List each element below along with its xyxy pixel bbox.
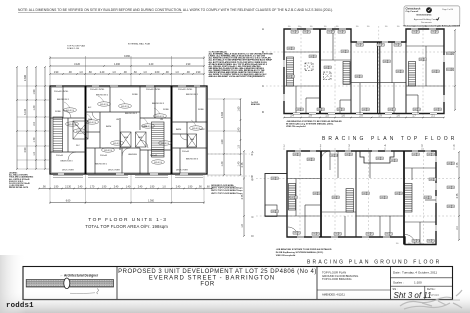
svg-text:1.0: 1.0 [310, 26, 313, 28]
svg-text:GS1: GS1 [287, 76, 291, 78]
svg-text:1.0: 1.0 [437, 26, 440, 28]
callout bubbles [64, 102, 203, 164]
svg-text:2.40: 2.40 [114, 186, 119, 188]
svg-text:GS1: GS1 [383, 61, 387, 63]
svg-text:GS1: GS1 [307, 159, 311, 161]
svg-text:2.40: 2.40 [78, 186, 83, 188]
shower xbox unit1 [73, 121, 88, 139]
svg-text:BRACING: BRACING [251, 103, 260, 106]
svg-text:GS1: GS1 [291, 32, 295, 34]
svg-text:GS1: GS1 [419, 59, 423, 61]
micro labels above top wall [288, 26, 440, 28]
svg-text:GS1: GS1 [376, 158, 380, 160]
svg-text:1.90: 1.90 [54, 72, 59, 74]
svg-text:SHR: SHR [138, 137, 143, 139]
svg-text:2.40: 2.40 [176, 186, 181, 188]
room labels [54, 89, 205, 172]
svg-text:2.75: 2.75 [241, 162, 244, 167]
extra partitions ground plan [305, 151, 436, 237]
svg-text:A: A [262, 27, 264, 31]
legend notes block [209, 51, 274, 79]
svg-text:TOP FLOOR BRACING: TOP FLOOR BRACING [322, 277, 352, 281]
svg-text:Ref No :: Ref No : [427, 288, 436, 291]
window breaks top plan walls [291, 29, 437, 114]
svg-text:BRACING PLAN GROUND FLOOR: BRACING PLAN GROUND FLOOR [307, 259, 441, 265]
svg-text:2.60: 2.60 [155, 72, 160, 74]
logo: architectural designer [26, 273, 113, 294]
window breaks ground plan walls [295, 151, 436, 237]
svg-text:← Architectural Designer: ← Architectural Designer [60, 273, 99, 277]
svg-text:BATH: BATH [106, 125, 112, 128]
gray watermark squiggle [400, 290, 462, 309]
left extension lines [17, 86, 241, 175]
svg-text:1.90: 1.90 [54, 186, 59, 188]
svg-text:2.130: 2.130 [65, 186, 72, 188]
svg-text:VISE ON easybuild: VISE ON easybuild [286, 126, 306, 128]
svg-text:Scales :: Scales : [393, 280, 404, 284]
svg-text:2.40: 2.40 [149, 64, 154, 66]
svg-text:ROBE: ROBE [163, 109, 169, 111]
svg-text:1.70: 1.70 [90, 186, 95, 188]
svg-text:D: D [252, 234, 254, 238]
svg-text:GS1: GS1 [271, 211, 275, 213]
svg-text:IN GIB EzyBracing SYSTEMS MANU: IN GIB EzyBracing SYSTEMS MANUAL (2011). [276, 251, 324, 254]
dim ticks row below top plan [283, 115, 445, 118]
svg-text:GS1: GS1 [394, 45, 398, 47]
svg-text:GS1: GS1 [293, 154, 297, 156]
bracing top: dashed grid [266, 51, 455, 53]
svg-text:GS1-N 2.4: GS1-N 2.4 [192, 128, 200, 130]
svg-text:GS1: GS1 [330, 155, 334, 157]
svg-text:GS1: GS1 [447, 163, 451, 165]
svg-text:1.90: 1.90 [102, 186, 107, 188]
svg-text:GS1-N 2.4: GS1-N 2.4 [68, 124, 76, 126]
svg-text:1.0: 1.0 [397, 26, 400, 28]
svg-text:1.0: 1.0 [408, 243, 411, 245]
svg-text:BEDROOM 3: BEDROOM 3 [61, 161, 74, 163]
svg-text:6.60: 6.60 [66, 200, 71, 202]
svg-text:City Council: City Council [406, 10, 419, 13]
svg-text:GS1: GS1 [337, 109, 341, 111]
internal partitions top plan [284, 29, 444, 114]
svg-text:FOR: FOR [200, 282, 215, 288]
svg-text:DECK OVER: DECK OVER [108, 170, 120, 172]
title block frame [23, 267, 453, 300]
svg-text:GS1: GS1 [434, 109, 438, 111]
svg-text:GS1-N 2.4: GS1-N 2.4 [144, 126, 152, 128]
door arcs [288, 227, 298, 237]
svg-text:1.60: 1.60 [221, 139, 224, 144]
svg-text:1.0: 1.0 [413, 26, 416, 28]
svg-text:2.75: 2.75 [456, 162, 459, 167]
svg-text:C: C [252, 215, 254, 219]
svg-text:SHR: SHR [190, 139, 195, 141]
svg-text:TOP FLOOR UNITS 1-3: TOP FLOOR UNITS 1-3 [88, 217, 167, 223]
shower xbox unit3 [188, 134, 197, 147]
svg-text:1.90: 1.90 [33, 89, 36, 94]
svg-text:GS1: GS1 [447, 69, 451, 71]
svg-text:BEDROOM 2: BEDROOM 2 [96, 95, 109, 97]
side wall breaks top plan [284, 55, 444, 102]
svg-text:BEDROOM 3: BEDROOM 3 [186, 159, 199, 161]
svg-text:D: D [262, 110, 264, 114]
party walls top plan [319, 29, 321, 114]
svg-text:GS1: GS1 [412, 32, 416, 34]
svg-text:1.90: 1.90 [150, 186, 155, 188]
svg-text:GS1-N 2.4: GS1-N 2.4 [88, 122, 96, 124]
svg-text:GS1: GS1 [447, 53, 451, 55]
svg-text:2.40: 2.40 [100, 72, 105, 74]
svg-text:VISE ON easybuild: VISE ON easybuild [276, 255, 296, 257]
extension lines [50, 56, 204, 86]
svg-text:GS1-N 2.4: GS1-N 2.4 [100, 104, 108, 106]
svg-text:This document is issued under: This document is issued under section 51… [403, 25, 461, 28]
party walls ground [320, 151, 322, 237]
svg-text:Approved Building Consent: Approved Building Consent [414, 18, 440, 21]
svg-text:1.40: 1.40 [221, 161, 224, 166]
svg-text:B: B [252, 178, 254, 182]
svg-text:A: A [252, 150, 254, 154]
right dimension columns [221, 98, 225, 176]
svg-text:GS1: GS1 [447, 187, 451, 189]
dashed xboxes [305, 63, 331, 80]
svg-text:Sht 3 of 11: Sht 3 of 11 [394, 291, 432, 300]
page bottom edge [23, 299, 460, 301]
svg-text:GS1: GS1 [432, 71, 436, 73]
dashed grid ground [256, 178, 455, 180]
svg-text:2/90x45 LINTEL: 2/90x45 LINTEL [90, 89, 105, 91]
svg-text:1.360: 1.360 [148, 200, 155, 202]
svg-text:GS1-N 2.4: GS1-N 2.4 [104, 150, 112, 152]
svg-text:PROPOSED 3 UNIT DEVELOPMENT AT: PROPOSED 3 UNIT DEVELOPMENT AT LOT 25 DP… [118, 269, 317, 275]
svg-text:IN GIB EzyBracing SYSTEMS MANU: IN GIB EzyBracing SYSTEMS MANUAL (2011). [286, 123, 334, 126]
bracing labels ground plan [293, 153, 300, 156]
stairs top plan [287, 57, 294, 86]
svg-text:BATH: BATH [176, 128, 182, 131]
svg-text:3.120: 3.120 [74, 64, 81, 66]
svg-text:2/90x45 LINTEL: 2/90x45 LINTEL [54, 91, 69, 93]
svg-text:GS1: GS1 [356, 45, 360, 47]
svg-text:1.90: 1.90 [188, 186, 193, 188]
svg-text:GS1-N 2.4: GS1-N 2.4 [66, 110, 74, 112]
svg-text:BRACING PLAN TOP FLOOR: BRACING PLAN TOP FLOOR [322, 136, 457, 142]
svg-text:UNIT 3 TOP FLOOR AREA 72sqm: UNIT 3 TOP FLOOR AREA 72sqm [211, 192, 243, 195]
svg-text:BEDROOM 2: BEDROOM 2 [125, 113, 138, 115]
svg-text:-GIB BRACING SYSTEMS TO BE FIX: -GIB BRACING SYSTEMS TO BE FIXED AS DETA… [276, 248, 332, 251]
svg-text:GS1: GS1 [431, 32, 435, 34]
svg-text:2.40: 2.40 [138, 186, 143, 188]
svg-text:GS1: GS1 [271, 178, 275, 180]
internal partitions ground [287, 151, 436, 245]
svg-text:1.0: 1.0 [385, 26, 388, 28]
svg-text:GS1: GS1 [429, 179, 433, 181]
svg-text:GS1: GS1 [317, 109, 321, 111]
svg-text:GS1: GS1 [390, 160, 394, 162]
svg-text:GS1: GS1 [341, 51, 345, 53]
svg-text:2/90x45 LINTEL: 2/90x45 LINTEL [178, 89, 193, 91]
svg-text:UNIT 2 TOP FLOOR AREA 72sqm: UNIT 2 TOP FLOOR AREA 72sqm [211, 189, 243, 192]
svg-text:A/C: A/C [88, 106, 92, 109]
svg-text:2.90: 2.90 [24, 147, 27, 152]
svg-text:1.0: 1.0 [396, 243, 399, 245]
svg-text:AND ALL RELEVANT LOCAL AUTHORI: AND ALL RELEVANT LOCAL AUTHORITY REQUIRE… [209, 75, 266, 78]
svg-text:3.140: 3.140 [24, 108, 27, 115]
svg-text:NOTE: ALL DIMENSIONS TO BE VER: NOTE: ALL DIMENSIONS TO BE VERIFIED ON S… [18, 8, 333, 12]
svg-text:Documents: Documents [421, 21, 432, 24]
leader lines [64, 96, 196, 129]
svg-text:LIN: LIN [116, 119, 120, 121]
svg-text:C: C [262, 84, 264, 88]
svg-text:2/90x45 LINTEL: 2/90x45 LINTEL [146, 89, 161, 91]
annex porch left [265, 174, 287, 217]
svg-text:1.40: 1.40 [126, 186, 131, 188]
svg-text:GS1: GS1 [309, 56, 313, 58]
svg-text:2/90x45: 2/90x45 [56, 155, 64, 157]
svg-text:GS1: GS1 [427, 154, 431, 156]
svg-text:GS1-N 2.4: GS1-N 2.4 [154, 162, 162, 164]
svg-text:SP320: SP320 [430, 293, 439, 297]
svg-text:GS1: GS1 [447, 206, 451, 208]
svg-text:1.0: 1.0 [324, 26, 327, 28]
svg-text:1.0: 1.0 [298, 26, 301, 28]
svg-text:TOTAL TOP FLOOR AREA O/Fr. 198: TOTAL TOP FLOOR AREA O/Fr. 198sqm [85, 224, 168, 229]
svg-text:1.0: 1.0 [432, 243, 435, 245]
svg-text:GS1: GS1 [395, 193, 399, 195]
svg-text:GS1: GS1 [413, 109, 417, 111]
drawing list [322, 271, 358, 282]
svg-text:EXTERNAL WALL PLAN: EXTERNAL WALL PLAN [128, 43, 151, 46]
svg-text:GS1: GS1 [388, 109, 392, 111]
svg-text:GS1: GS1 [324, 67, 328, 69]
svg-text:GS1: GS1 [296, 109, 300, 111]
svg-text:SCALE 1:100: SCALE 1:100 [67, 47, 80, 50]
svg-text:2.300: 2.300 [24, 74, 27, 81]
svg-text:GS1: GS1 [427, 241, 431, 243]
party wall unit1/2 [85, 86, 87, 174]
right vdim top plan [454, 29, 456, 111]
stair unit1 [53, 117, 63, 152]
svg-text:BEDROOM 1: BEDROOM 1 [186, 94, 199, 96]
svg-text:-GIB BRACING SYSTEMS TO BE FIX: -GIB BRACING SYSTEMS TO BE FIXED AS DETA… [286, 120, 342, 123]
top recess middle [360, 151, 394, 163]
svg-text:1.0: 1.0 [420, 243, 423, 245]
svg-text:GS1: GS1 [396, 71, 400, 73]
party wall unit2/3 [171, 86, 173, 174]
bracing labels top plan [291, 31, 298, 34]
svg-text:rodds1: rodds1 [6, 302, 34, 310]
svg-text:1.460: 1.460 [114, 64, 121, 66]
svg-text:9.360: 9.360 [124, 56, 131, 58]
svg-text:1.70: 1.70 [33, 137, 36, 142]
svg-text:EVERARD STREET - BARRINGTON: EVERARD STREET - BARRINGTON [149, 275, 275, 281]
svg-text:GS1-N 2.4: GS1-N 2.4 [121, 106, 129, 108]
plan outer walls [50, 86, 207, 174]
right vertical dim ground plan [456, 151, 460, 241]
svg-text:GS1: GS1 [380, 197, 384, 199]
svg-text:B: B [262, 50, 264, 54]
svg-text:2/90x45: 2/90x45 [182, 151, 190, 153]
svg-text:GS1: GS1 [312, 234, 316, 236]
svg-text:HWC: HWC [200, 129, 205, 131]
svg-text:DECK OVER: DECK OVER [62, 170, 74, 172]
svg-text:1.60: 1.60 [238, 106, 241, 111]
svg-text:GS1: GS1 [303, 32, 307, 34]
svg-text:GS1: GS1 [385, 234, 389, 236]
svg-text:2/90x45: 2/90x45 [100, 155, 108, 157]
ground plan walls [287, 151, 436, 245]
balcony rails below bottom wall [53, 176, 203, 178]
svg-text:BEDROOM 1: BEDROOM 1 [57, 99, 70, 101]
internal partitions [50, 86, 207, 174]
top floor plan: top dimension lines [49, 56, 205, 59]
svg-text:1.0: 1.0 [288, 26, 291, 28]
svg-text:BEDROOM 1: BEDROOM 1 [95, 164, 108, 166]
svg-text:3.75: 3.75 [456, 193, 459, 198]
svg-text:GS1: GS1 [424, 197, 428, 199]
svg-text:GS1-N 2.4: GS1-N 2.4 [161, 143, 169, 145]
bottom partitions top plan [306, 83, 418, 114]
left note [251, 101, 260, 106]
top floor plan: left dimension columns [16, 66, 18, 170]
svg-text:1:100: 1:100 [414, 280, 422, 284]
svg-text:ROBE: ROBE [198, 109, 204, 111]
svg-text:3.75: 3.75 [241, 194, 244, 199]
stair central [152, 122, 165, 157]
svg-text:REFER DETAIL SHTS: REFER DETAIL SHTS [9, 186, 29, 189]
svg-text:1.0: 1.0 [336, 26, 339, 28]
bottom-right area notes [211, 184, 243, 195]
bottom dimension rows [38, 186, 213, 189]
svg-text:GS1: GS1 [355, 76, 359, 78]
GIB notes (ground) [276, 248, 332, 257]
shower xboxes central [121, 132, 132, 147]
svg-text:ROBE: ROBE [55, 111, 61, 113]
svg-text:GS1-N 2.4: GS1-N 2.4 [156, 116, 164, 118]
svg-text:GS1: GS1 [327, 32, 331, 34]
stairs ground [289, 184, 296, 211]
svg-text:GS1: GS1 [377, 45, 381, 47]
svg-text:GS1: GS1 [412, 241, 416, 243]
svg-text:SHR: SHR [124, 137, 129, 139]
bottom-left notes [9, 173, 34, 190]
tiny labels below ground plan wall [396, 243, 435, 245]
svg-text:GS1: GS1 [293, 233, 297, 235]
svg-text:Page 3 of 14: Page 3 of 14 [442, 9, 453, 11]
svg-text:1.90: 1.90 [186, 64, 191, 66]
svg-text:GS1: GS1 [313, 193, 317, 195]
bracing top: walls [284, 29, 444, 114]
svg-text:AMENDED: 4/12/11: AMENDED: 4/12/11 [322, 293, 345, 297]
svg-text:GS1: GS1 [334, 234, 338, 236]
svg-text:1.0: 1.0 [425, 26, 428, 28]
svg-text:BCN/2016/4745: BCN/2016/4745 [417, 13, 433, 16]
svg-text:1.90: 1.90 [196, 72, 201, 74]
svg-text:GS1: GS1 [345, 154, 349, 156]
svg-text:1.0: 1.0 [356, 26, 359, 28]
svg-text:1.40: 1.40 [33, 105, 36, 110]
svg-text:GS1: GS1 [287, 48, 291, 50]
svg-text:GS1: GS1 [412, 154, 416, 156]
svg-text:GS1-N 2.4: GS1-N 2.4 [113, 143, 121, 145]
svg-text:GS1: GS1 [338, 32, 342, 34]
svg-text:LANDING: LANDING [128, 153, 137, 156]
window sill marks on outer walls [56, 86, 200, 174]
council approval stamp [403, 6, 461, 28]
svg-text:GS1: GS1 [362, 109, 366, 111]
svg-text:UNIT 1 TOP FLOOR AREA 92sqm: UNIT 1 TOP FLOOR AREA 92sqm [211, 187, 243, 190]
svg-text:ROBE: ROBE [132, 94, 138, 96]
svg-text:GS1: GS1 [362, 193, 366, 195]
GIB notes (top) [286, 120, 342, 128]
svg-text:1.40: 1.40 [238, 127, 241, 132]
left vertical dim for ground plan [241, 150, 245, 237]
svg-text:2/90x45: 2/90x45 [150, 155, 158, 157]
svg-text:GS1: GS1 [366, 234, 370, 236]
svg-text:W.C: W.C [76, 145, 80, 147]
svg-text:LIN: LIN [160, 119, 164, 121]
svg-text:GS1-N 2.4: GS1-N 2.4 [76, 131, 84, 133]
door arcs left plan [63, 110, 187, 160]
svg-text:GS1: GS1 [332, 197, 336, 199]
svg-text:1.0: 1.0 [367, 26, 370, 28]
svg-text:2.340: 2.340 [221, 111, 224, 118]
svg-text:DECK OVER: DECK OVER [176, 170, 188, 172]
svg-text:GS1: GS1 [290, 197, 294, 199]
svg-text:Date : Tuesday, 4 October, 201: Date : Tuesday, 4 October, 2011 [393, 271, 437, 275]
svg-text:BEDROOM 3: BEDROOM 3 [152, 103, 165, 105]
